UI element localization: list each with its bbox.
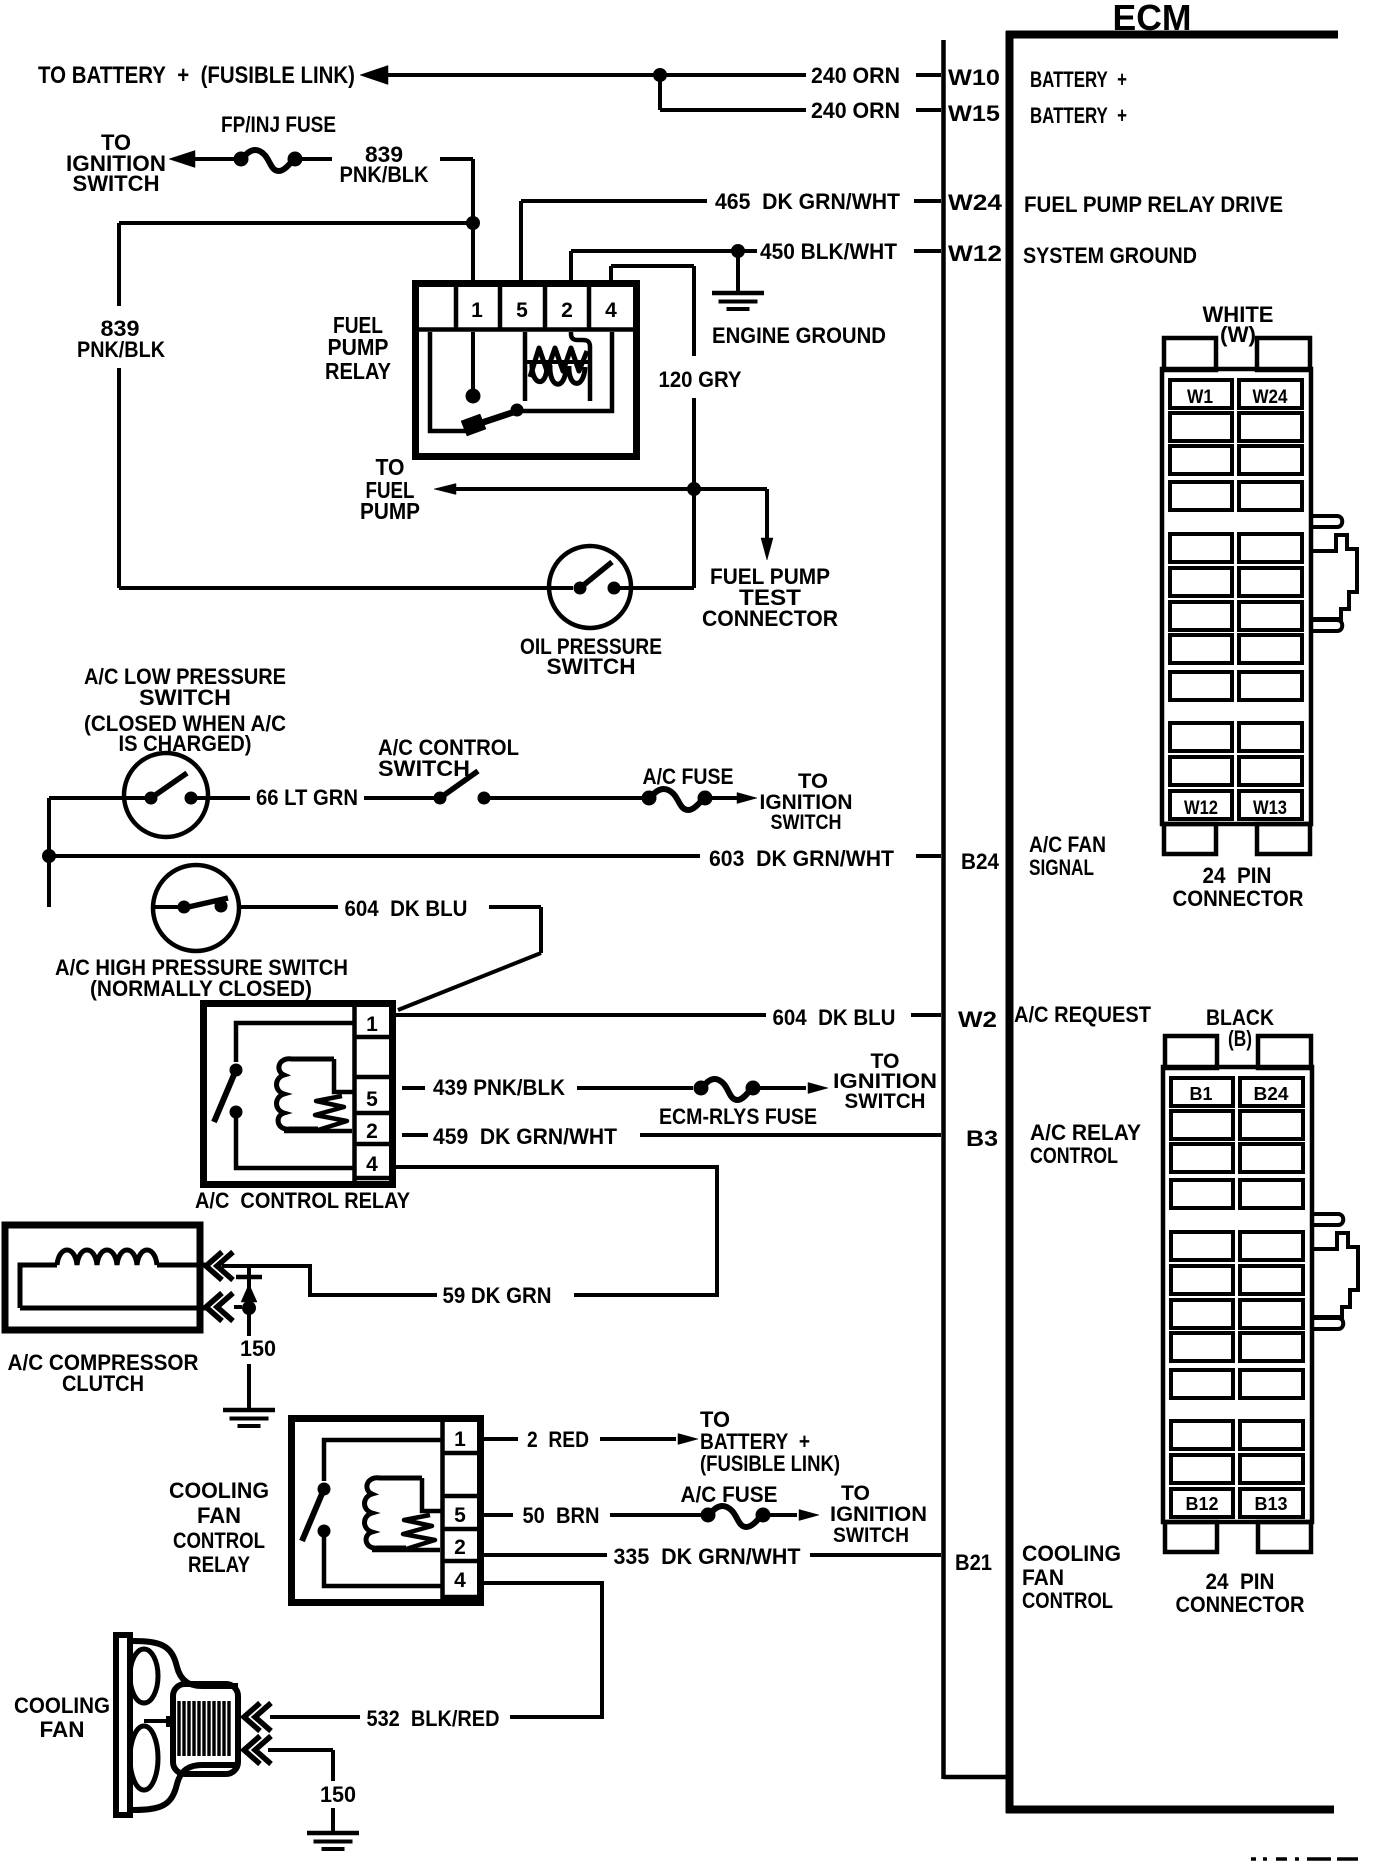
svg-text:B1: B1: [1190, 1084, 1213, 1104]
svg-text:150: 150: [320, 1782, 356, 1807]
svg-text:IGNITION: IGNITION: [830, 1503, 927, 1526]
svg-text:SWITCH: SWITCH: [833, 1524, 909, 1547]
svg-text:2 RED: 2 RED: [527, 1427, 589, 1452]
svg-text:CONTROL: CONTROL: [1022, 1588, 1113, 1613]
svg-text:1: 1: [454, 1428, 466, 1451]
svg-text:1: 1: [366, 1013, 378, 1036]
svg-text:2: 2: [561, 299, 573, 322]
svg-text:PUMP: PUMP: [360, 498, 420, 524]
svg-text:BATTERY +: BATTERY +: [1030, 103, 1127, 128]
svg-text:450 BLK/WHT: 450 BLK/WHT: [760, 239, 898, 264]
svg-text:2: 2: [454, 1536, 466, 1559]
svg-text:465 DK GRN/WHT: 465 DK GRN/WHT: [715, 189, 901, 214]
svg-text:4: 4: [366, 1153, 378, 1176]
svg-text:CONTROL: CONTROL: [1030, 1143, 1118, 1168]
svg-text:B12: B12: [1186, 1494, 1219, 1514]
svg-text:A/C FAN: A/C FAN: [1029, 832, 1106, 857]
svg-text:FAN: FAN: [40, 1717, 85, 1742]
svg-text:603 DK GRN/WHT: 603 DK GRN/WHT: [709, 846, 895, 871]
svg-text:RELAY: RELAY: [188, 1552, 250, 1577]
svg-text:SWITCH: SWITCH: [771, 811, 842, 834]
svg-text:FAN: FAN: [197, 1503, 241, 1528]
svg-text:439 PNK/BLK: 439 PNK/BLK: [433, 1075, 565, 1100]
svg-text:TO: TO: [798, 770, 828, 793]
svg-text:SWITCH: SWITCH: [378, 756, 470, 781]
svg-text:1: 1: [471, 299, 483, 322]
svg-text:CONTROL: CONTROL: [173, 1528, 265, 1553]
svg-text:240 ORN: 240 ORN: [811, 98, 900, 123]
svg-text:A/C REQUEST: A/C REQUEST: [1014, 1002, 1152, 1027]
svg-text:SWITCH: SWITCH: [845, 1090, 926, 1113]
svg-text:ENGINE GROUND: ENGINE GROUND: [712, 323, 886, 348]
svg-text:PNK/BLK: PNK/BLK: [340, 162, 429, 187]
svg-text:FP/INJ FUSE: FP/INJ FUSE: [221, 112, 336, 137]
svg-text:TO BATTERY + (FUSIBLE LINK): TO BATTERY + (FUSIBLE LINK): [38, 62, 355, 89]
svg-text:50 BRN: 50 BRN: [523, 1503, 600, 1528]
svg-text:(NORMALLY CLOSED): (NORMALLY CLOSED): [90, 976, 312, 1001]
svg-text:CLUTCH: CLUTCH: [62, 1371, 144, 1396]
svg-text:PNK/BLK: PNK/BLK: [77, 337, 165, 362]
svg-text:4: 4: [454, 1569, 466, 1592]
svg-text:FUEL PUMP RELAY DRIVE: FUEL PUMP RELAY DRIVE: [1024, 192, 1283, 217]
svg-text:CONNECTOR: CONNECTOR: [1173, 886, 1304, 911]
svg-text:5: 5: [454, 1504, 466, 1527]
svg-text:(FUSIBLE LINK): (FUSIBLE LINK): [700, 1451, 840, 1476]
svg-text:(B): (B): [1228, 1026, 1252, 1051]
svg-text:66 LT GRN: 66 LT GRN: [256, 785, 358, 810]
svg-text:A/C FUSE: A/C FUSE: [643, 764, 734, 789]
svg-text:4: 4: [605, 299, 617, 322]
svg-text:COOLING: COOLING: [14, 1693, 110, 1718]
svg-text:FAN: FAN: [1022, 1565, 1064, 1590]
svg-text:W12: W12: [948, 241, 1002, 266]
svg-text:24 PIN: 24 PIN: [1206, 1569, 1275, 1594]
svg-text:B13: B13: [1255, 1494, 1288, 1514]
svg-text:B24: B24: [961, 849, 1000, 874]
svg-text:IS CHARGED): IS CHARGED): [119, 731, 252, 756]
svg-text:W15: W15: [948, 101, 1000, 126]
svg-text:COOLING: COOLING: [1022, 1541, 1121, 1566]
svg-text:SIGNAL: SIGNAL: [1029, 855, 1094, 880]
svg-text:5: 5: [366, 1088, 378, 1111]
svg-text:W2: W2: [958, 1007, 997, 1032]
svg-text:59 DK GRN: 59 DK GRN: [443, 1283, 552, 1308]
svg-text:24 PIN: 24 PIN: [1203, 863, 1272, 888]
svg-text:CONNECTOR: CONNECTOR: [702, 606, 838, 631]
svg-text:RELAY: RELAY: [325, 358, 391, 384]
svg-text:120 GRY: 120 GRY: [659, 367, 742, 392]
svg-text:A/C CONTROL RELAY: A/C CONTROL RELAY: [195, 1188, 410, 1213]
svg-text:W10: W10: [948, 65, 1000, 90]
svg-text:W1: W1: [1187, 387, 1213, 408]
svg-text:B21: B21: [955, 1550, 992, 1575]
svg-text:532 BLK/RED: 532 BLK/RED: [367, 1706, 500, 1731]
svg-text:BATTERY +: BATTERY +: [1030, 67, 1127, 92]
svg-text:SWITCH: SWITCH: [139, 685, 231, 710]
svg-text:5: 5: [516, 299, 528, 322]
svg-text:PUMP: PUMP: [328, 334, 389, 360]
svg-text:604 DK BLU: 604 DK BLU: [773, 1005, 896, 1030]
svg-text:A/C FUSE: A/C FUSE: [681, 1482, 778, 1507]
svg-text:2: 2: [366, 1120, 378, 1143]
svg-text:TO: TO: [841, 1482, 870, 1505]
svg-text:459 DK GRN/WHT: 459 DK GRN/WHT: [433, 1124, 618, 1149]
svg-text:335 DK GRN/WHT: 335 DK GRN/WHT: [614, 1544, 802, 1569]
svg-text:CONNECTOR: CONNECTOR: [1176, 1592, 1305, 1617]
svg-text:W24: W24: [1253, 387, 1288, 408]
svg-text:SWITCH: SWITCH: [547, 654, 636, 679]
svg-text:240 ORN: 240 ORN: [811, 63, 900, 88]
svg-text:SWITCH: SWITCH: [73, 171, 160, 196]
svg-text:SYSTEM GROUND: SYSTEM GROUND: [1023, 243, 1197, 268]
svg-text:ECM-RLYS FUSE: ECM-RLYS FUSE: [659, 1104, 817, 1129]
svg-text:B3: B3: [966, 1126, 998, 1151]
svg-text:(W): (W): [1220, 322, 1256, 347]
svg-text:W24: W24: [948, 190, 1003, 215]
svg-text:604 DK BLU: 604 DK BLU: [345, 896, 468, 921]
svg-text:B24: B24: [1254, 1084, 1289, 1104]
svg-text:A/C RELAY: A/C RELAY: [1030, 1120, 1141, 1145]
svg-text:COOLING: COOLING: [169, 1478, 269, 1503]
svg-text:150: 150: [240, 1336, 276, 1361]
svg-text:W12: W12: [1184, 798, 1218, 819]
svg-text:W13: W13: [1253, 798, 1287, 819]
